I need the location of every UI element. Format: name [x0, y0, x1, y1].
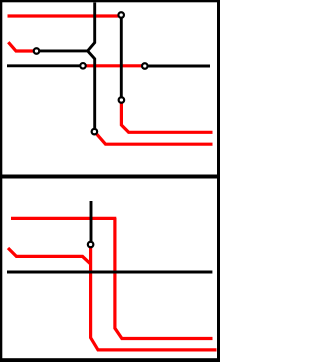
- node J6: [142, 63, 148, 69]
- wire black right horizontal panel1: [148, 65, 210, 68]
- wire black vertical stub panel2: [90, 201, 93, 241]
- node J1: [34, 48, 40, 54]
- wire black horizontal panel2: [7, 271, 212, 274]
- wire red elbow from node J3: [121, 103, 212, 132]
- node J3: [119, 97, 125, 103]
- wire red top line to node J2: [8, 14, 119, 17]
- wire red elbow from node J4: [97, 134, 213, 144]
- node J5: [80, 63, 86, 69]
- wire red loop panel2: [11, 218, 213, 339]
- wire black vertical bus with jog panel1: [40, 3, 95, 129]
- node J7: [88, 242, 94, 248]
- wire red middle segment J5 to J6: [85, 64, 142, 67]
- node J4: [92, 129, 98, 135]
- node J2: [118, 12, 124, 18]
- wire red feed lower-left panel2: [8, 248, 90, 264]
- wire black vertical J2 to J3: [120, 19, 123, 97]
- wire red feed upper-left panel1: [8, 42, 33, 51]
- wire red drop from node J7: [91, 246, 217, 350]
- wire black left horizontal panel1: [7, 64, 80, 67]
